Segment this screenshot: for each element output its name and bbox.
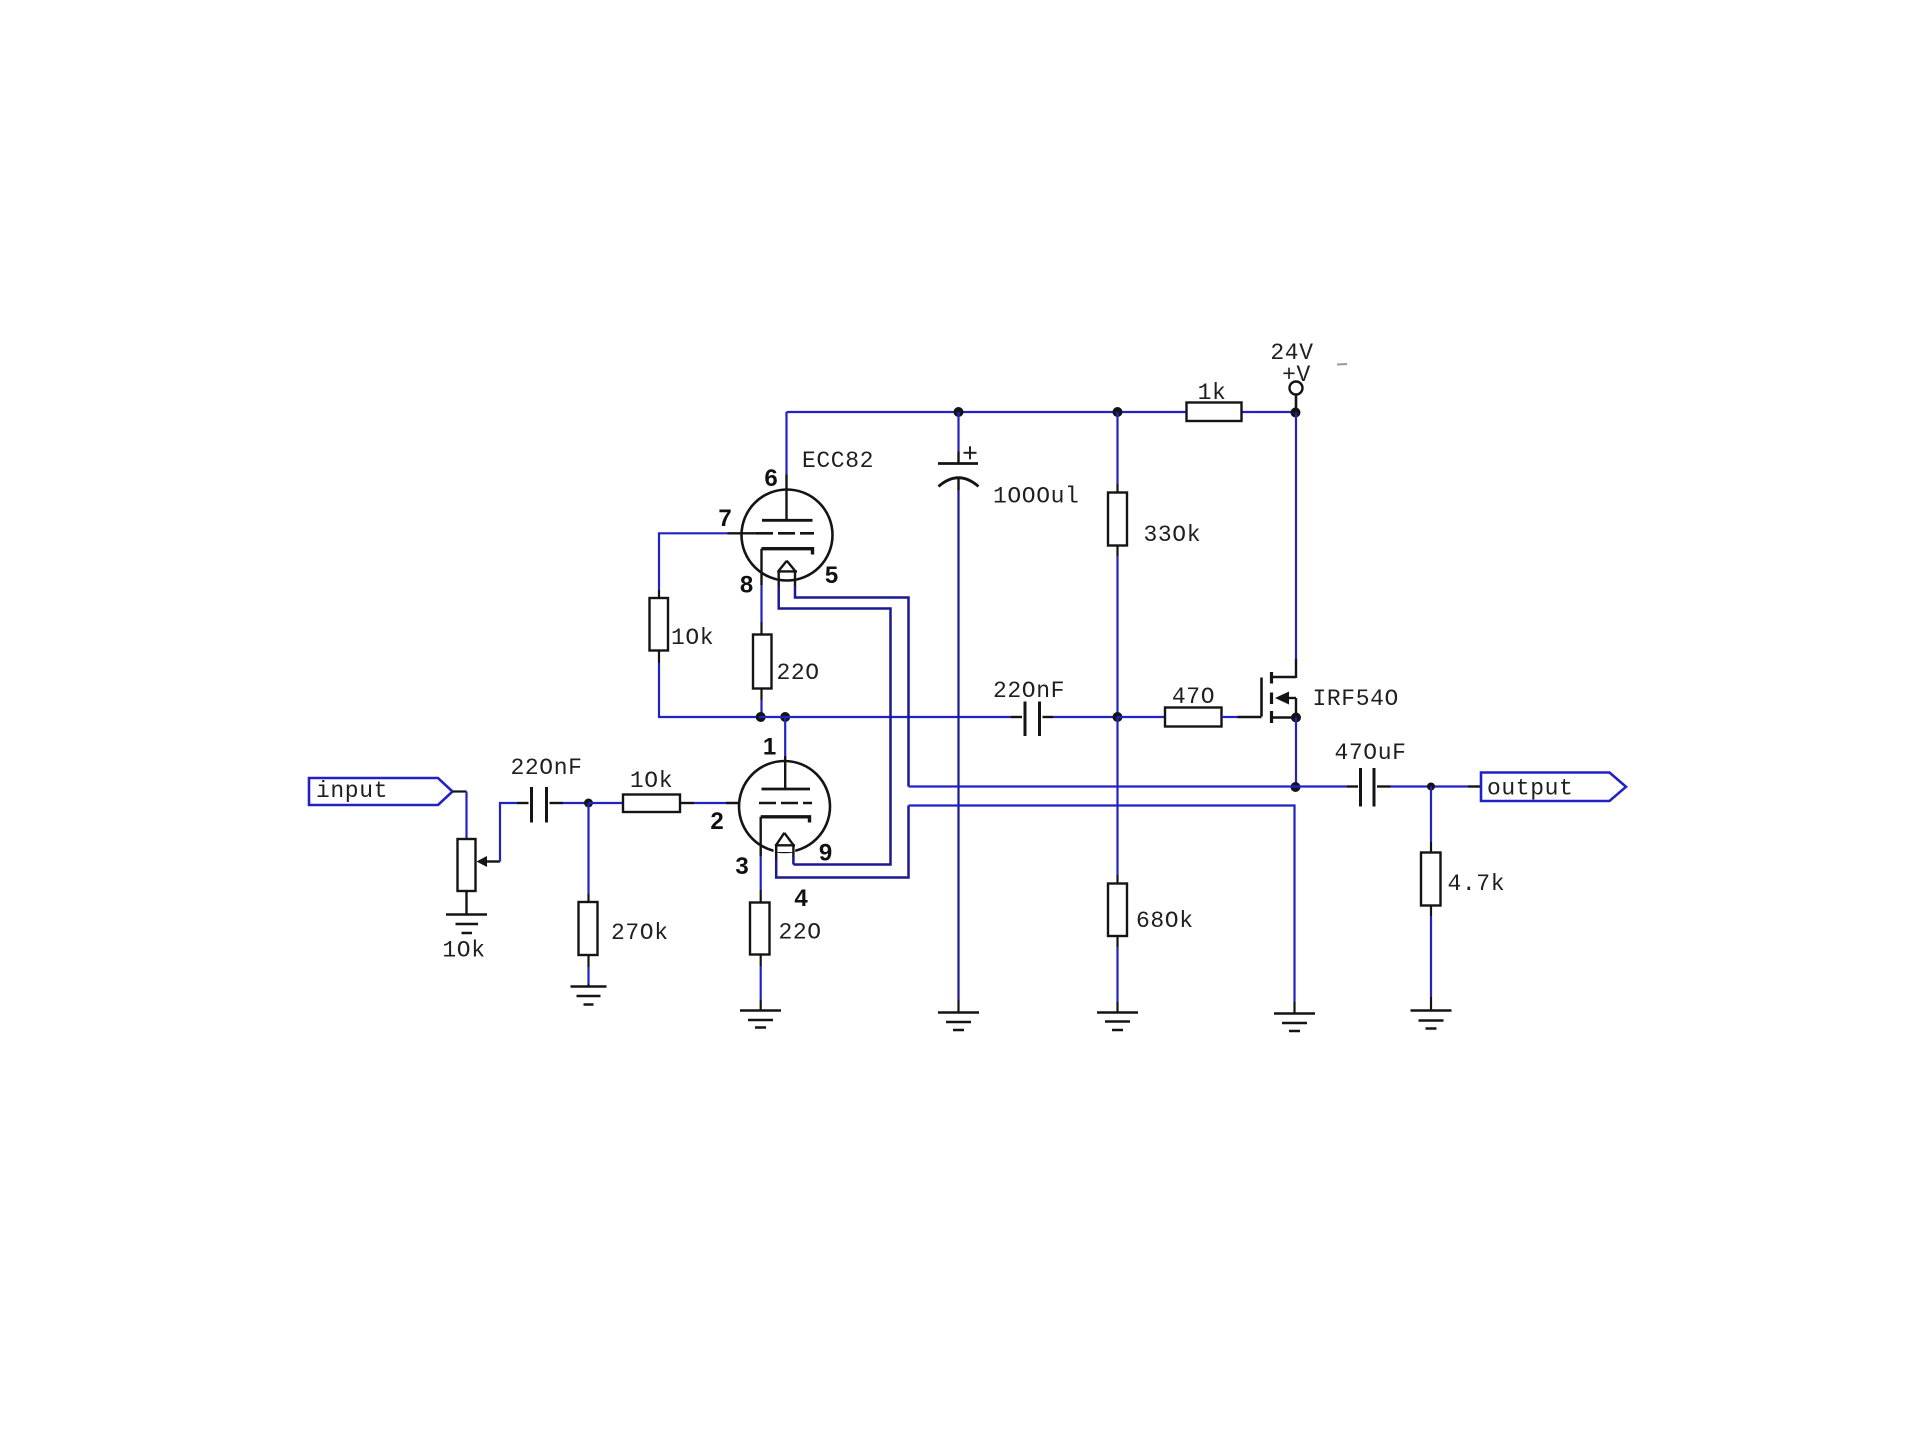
ground (R5 220): [740, 1011, 781, 1028]
wire: rail to R6 330k: [1116, 412, 1118, 493]
resistor R8 1k (supply): [1187, 403, 1242, 422]
svg-text:47O: 47O: [1172, 684, 1215, 710]
capacitor C3 220nF (gate coupling): [1011, 702, 1053, 737]
svg-text:IRF54O: IRF54O: [1313, 686, 1399, 712]
wire: wiper to coupling cap: [500, 803, 517, 862]
wire: R10 to ground: [1430, 906, 1432, 1011]
svg-text:1: 1: [763, 734, 776, 761]
triode V1b grid (dashed): [759, 802, 812, 805]
wire: heater link V1a to V1b pin 9: [779, 586, 891, 865]
triode V1b (ECC82 lower) envelope: [739, 761, 830, 852]
triode V1b anode plate: [762, 756, 811, 789]
node rail junction dot (330k): [1113, 407, 1123, 417]
svg-text:output: output: [1487, 776, 1573, 802]
node gate junction dot: [1113, 712, 1123, 722]
resistor R5 220 (V1b cathode): [750, 903, 770, 955]
wire: R7 to ground: [1116, 936, 1118, 1013]
wire: heater return to ground: [909, 806, 1295, 1014]
svg-text:22OnF: 22OnF: [993, 678, 1065, 704]
node SRPP junction dot right: [780, 712, 790, 722]
svg-text:1Ok: 1Ok: [630, 768, 673, 794]
capacitor C2 1000uF electrolytic: [938, 412, 979, 490]
capacitor C4 470uF (output): [1361, 768, 1391, 807]
svg-text:4.7k: 4.7k: [1448, 871, 1506, 897]
svg-text:33Ok: 33Ok: [1144, 522, 1202, 548]
ground (R2 270k): [571, 987, 607, 1005]
resistor R9 470 (gate stopper): [1165, 708, 1222, 727]
triode V1a (ECC82 upper) envelope: [742, 490, 833, 581]
potentiometer 10k body: [458, 839, 476, 891]
wire: heater return pin 4 (V1b): [776, 806, 908, 878]
resistor R7 680k: [1108, 884, 1127, 937]
output connector: [1481, 773, 1626, 802]
triode V1a cathode: [762, 549, 813, 585]
resistor R2 270k (grid leak): [579, 902, 598, 955]
svg-text:9: 9: [819, 840, 832, 867]
wire: C2 to ground: [957, 490, 959, 1013]
wire: C4 to output tag: [1391, 785, 1482, 787]
svg-text:7: 7: [718, 505, 731, 532]
resistor R3 10k (V1a grid): [650, 598, 669, 651]
wire: V1a grid pin 7 to left 10k R3: [659, 533, 728, 598]
node rail junction dot (1000uF): [954, 407, 964, 417]
ground (C2 1000uF): [938, 1013, 979, 1031]
wire: output node to R10 4.7k: [1430, 787, 1432, 853]
wire: C1 to junction node A: [563, 802, 589, 804]
node A junction dot: [584, 799, 593, 808]
capacitor C1 220nF input coupling: [517, 787, 563, 823]
node rail junction dot (+V): [1291, 408, 1301, 418]
svg-text:47OuF: 47OuF: [1334, 740, 1406, 766]
triode V1a grid (dashed): [728, 532, 815, 534]
svg-text:2: 2: [710, 808, 723, 835]
wire: R4 bottom to SRPP junction: [760, 689, 762, 718]
svg-text:24V: 24V: [1270, 340, 1313, 366]
terminal +V 24V: [1290, 382, 1303, 409]
resistor R6 330k: [1108, 493, 1127, 546]
node output tap junction dot: [1427, 783, 1435, 791]
node Q1 source junction dot: [1291, 713, 1301, 723]
ground (heater return): [1274, 1014, 1315, 1032]
resistor R4 220 (V1a cathode): [753, 635, 772, 689]
wire: V1b cathode to R5: [760, 856, 762, 903]
triode V1b heater: [774, 831, 796, 861]
wire: node A to R1: [589, 802, 624, 804]
wire: +V to Q1 drain: [1295, 413, 1297, 660]
wire: R3 bottom to SRPP junction: [659, 651, 759, 718]
resistor R10 4.7k (output load): [1421, 853, 1441, 906]
svg-text:22O: 22O: [779, 920, 822, 946]
svg-text:input: input: [316, 778, 388, 804]
wire: V1a anode pin 6 to supply rail: [785, 412, 787, 475]
svg-text:1Ok: 1Ok: [671, 625, 714, 651]
ground (R10 4.7k): [1411, 1011, 1452, 1029]
svg-text:1OOOul: 1OOOul: [993, 484, 1079, 510]
svg-text:27Ok: 27Ok: [611, 920, 669, 946]
wire: SRPP junction to C3: [785, 716, 1011, 718]
svg-text:1Ok: 1Ok: [442, 938, 485, 964]
wire: input tag to potentiometer top: [453, 792, 467, 840]
wire: R9 to Q1 gate: [1222, 716, 1262, 718]
wire: C3 to gate node: [1053, 716, 1118, 718]
wire: R5 to ground: [760, 955, 762, 1011]
input connector: [309, 778, 453, 805]
artifact dash: [1337, 363, 1347, 366]
svg-text:3: 3: [735, 853, 748, 880]
potentiometer wiper arrow: [477, 856, 501, 867]
wire: R1 to V1b grid pin 2: [680, 802, 757, 804]
svg-text:8: 8: [740, 572, 753, 599]
svg-text:22O: 22O: [777, 660, 820, 686]
wire: gate node to R9 470: [1118, 716, 1166, 718]
triode V1a heater: [777, 559, 797, 588]
wire: heater feed pin 5 (V1a): [795, 586, 909, 787]
wire: R6 bottom to gate node: [1116, 546, 1118, 718]
wire: V1a cathode to R4: [760, 585, 762, 635]
svg-text:ECC82: ECC82: [802, 448, 874, 474]
transistor Q1 IRF540: [1262, 659, 1297, 723]
resistor R1 10k (series grid): [623, 795, 680, 813]
svg-text:4: 4: [794, 885, 808, 912]
wire: supply rail: [787, 411, 1296, 413]
wire: node A down to R2: [587, 803, 589, 902]
wire: output net (source to C4): [909, 785, 1359, 787]
wire: R2 bottom to ground: [587, 955, 589, 987]
node SRPP junction dot left: [756, 712, 766, 722]
wire: SRPP junction to V1b anode pin 1: [759, 717, 785, 756]
svg-text:22OnF: 22OnF: [510, 755, 582, 781]
svg-text:5: 5: [825, 562, 838, 589]
ground (potentiometer): [446, 915, 487, 934]
svg-text:1k: 1k: [1198, 380, 1227, 406]
wire: potentiometer bottom lead: [465, 891, 467, 914]
wire: Q1 source to output node: [1295, 718, 1297, 788]
svg-text:6: 6: [764, 465, 777, 492]
ground (R7 680k): [1097, 1013, 1138, 1031]
node source/output junction dot: [1291, 782, 1301, 792]
wire: gate node down to R7 680k: [1116, 717, 1118, 884]
triode V1a anode plate: [762, 475, 813, 521]
svg-text:68Ok: 68Ok: [1136, 908, 1194, 934]
triode V1b cathode: [761, 817, 810, 856]
